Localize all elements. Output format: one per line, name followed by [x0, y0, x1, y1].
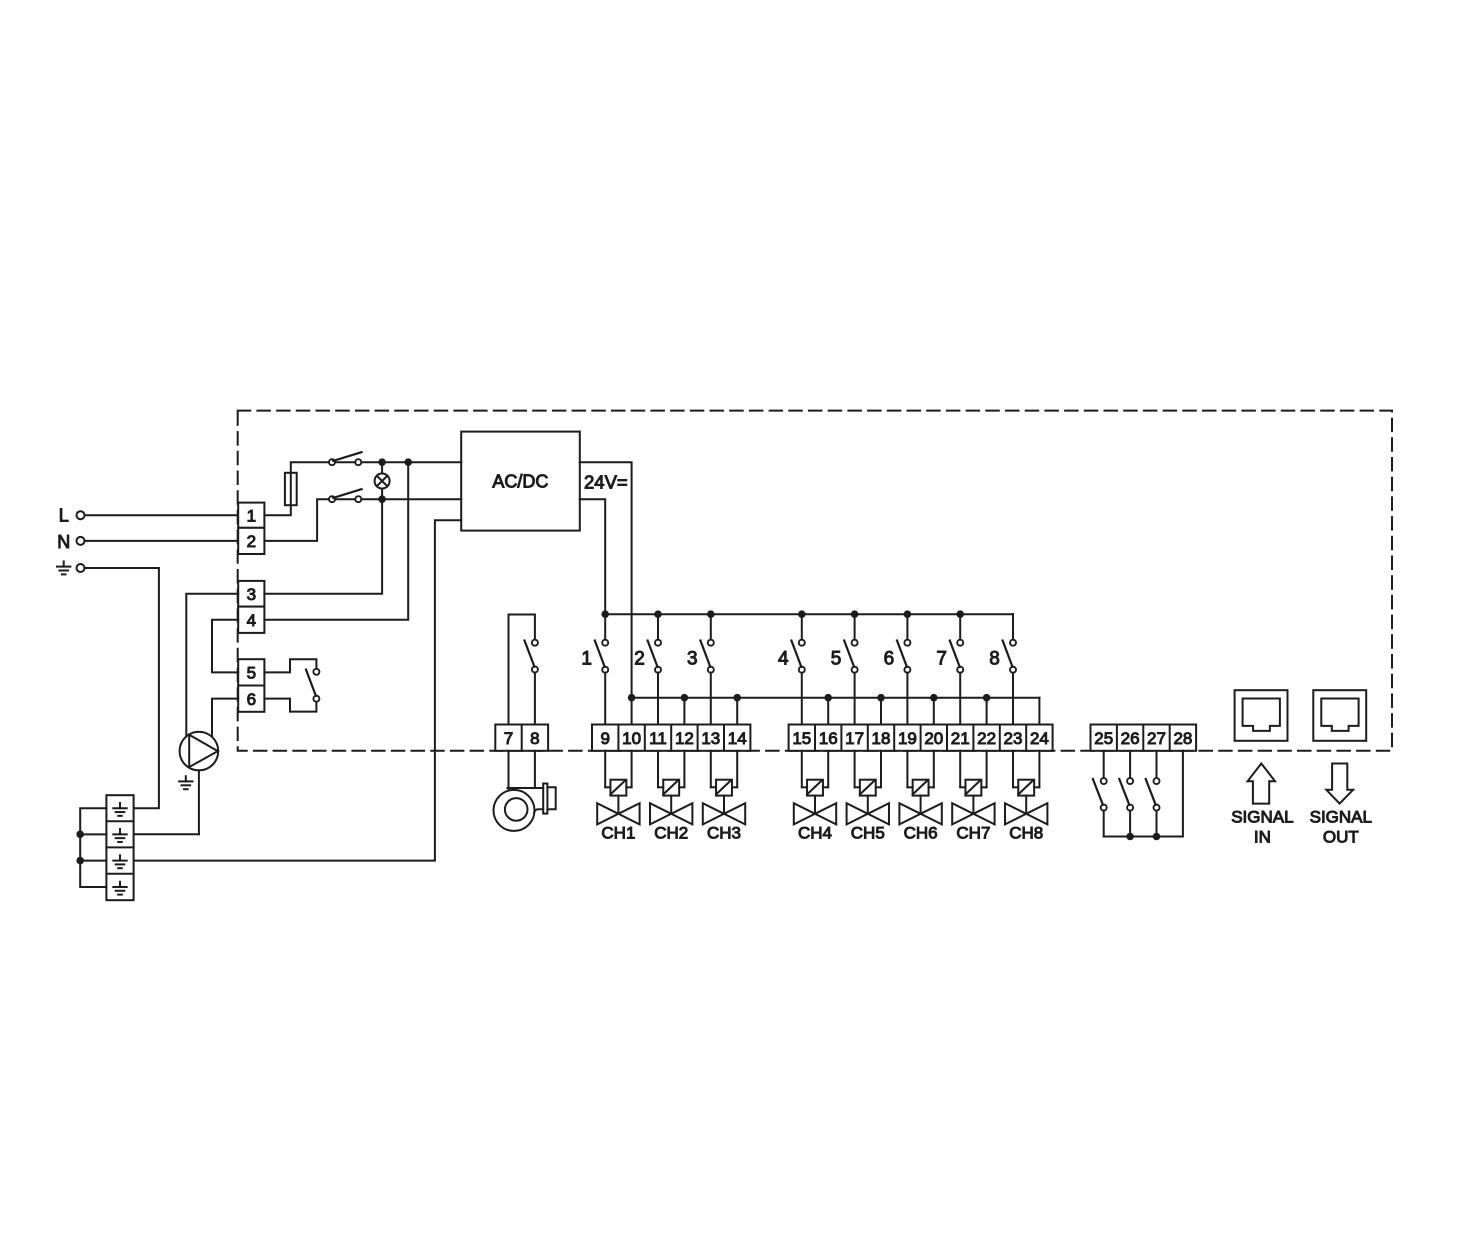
svg-text:2: 2 — [634, 648, 645, 669]
svg-text:CH1: CH1 — [601, 824, 635, 843]
svg-text:15: 15 — [792, 729, 811, 748]
svg-text:2: 2 — [247, 532, 256, 551]
svg-text:CH5: CH5 — [851, 824, 885, 843]
svg-text:SIGNAL: SIGNAL — [1310, 807, 1372, 826]
svg-text:SIGNAL: SIGNAL — [1231, 807, 1293, 826]
svg-text:CH6: CH6 — [904, 824, 938, 843]
svg-text:9: 9 — [600, 729, 609, 748]
svg-text:24: 24 — [1030, 729, 1049, 748]
svg-text:23: 23 — [1004, 729, 1023, 748]
svg-text:14: 14 — [728, 729, 747, 748]
svg-text:17: 17 — [845, 729, 864, 748]
svg-text:3: 3 — [687, 648, 698, 669]
svg-text:27: 27 — [1147, 729, 1166, 748]
svg-text:8: 8 — [989, 648, 1000, 669]
svg-text:5: 5 — [831, 648, 842, 669]
svg-text:26: 26 — [1121, 729, 1140, 748]
svg-text:12: 12 — [675, 729, 694, 748]
svg-text:21: 21 — [951, 729, 970, 748]
svg-text:1: 1 — [247, 506, 256, 525]
svg-text:8: 8 — [530, 729, 539, 748]
svg-text:19: 19 — [898, 729, 917, 748]
svg-text:11: 11 — [649, 729, 667, 748]
svg-text:CH2: CH2 — [654, 824, 688, 843]
svg-text:6: 6 — [884, 648, 895, 669]
svg-text:16: 16 — [819, 729, 838, 748]
svg-text:7: 7 — [504, 729, 513, 748]
svg-text:CH4: CH4 — [798, 824, 832, 843]
svg-text:CH7: CH7 — [956, 824, 990, 843]
svg-text:4: 4 — [778, 648, 789, 669]
svg-text:6: 6 — [247, 690, 256, 709]
svg-text:5: 5 — [247, 664, 256, 683]
svg-text:L: L — [59, 506, 69, 526]
svg-text:IN: IN — [1254, 828, 1271, 847]
svg-text:10: 10 — [622, 729, 641, 748]
svg-text:3: 3 — [247, 585, 256, 604]
svg-text:18: 18 — [872, 729, 891, 748]
svg-text:7: 7 — [936, 648, 947, 669]
svg-text:N: N — [57, 532, 70, 552]
svg-text:OUT: OUT — [1323, 828, 1359, 847]
svg-text:20: 20 — [924, 729, 943, 748]
svg-text:1: 1 — [581, 648, 592, 669]
svg-text:CH3: CH3 — [707, 824, 741, 843]
svg-text:4: 4 — [247, 611, 256, 630]
svg-text:28: 28 — [1173, 729, 1192, 748]
svg-text:24V=: 24V= — [584, 472, 628, 493]
svg-text:CH8: CH8 — [1009, 824, 1043, 843]
svg-text:22: 22 — [977, 729, 996, 748]
svg-text:13: 13 — [701, 729, 720, 748]
svg-text:25: 25 — [1094, 729, 1113, 748]
svg-text:AC/DC: AC/DC — [492, 472, 548, 492]
